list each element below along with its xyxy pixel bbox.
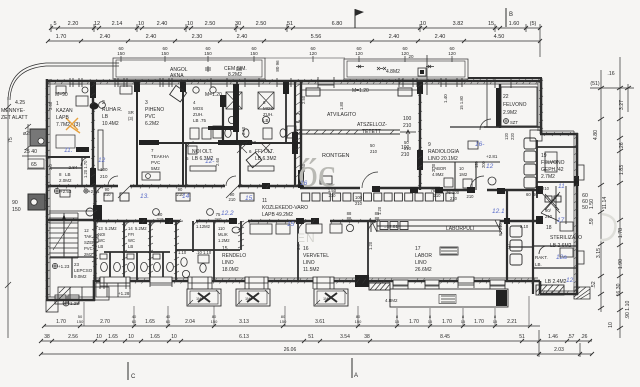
svg-text:30: 30 (235, 21, 241, 27)
left small dim line (27, 124, 29, 160)
svg-text:MLIK: MLIK (218, 232, 228, 237)
dim extension verticals from wall to rowA (84, 296, 529, 326)
svg-text:C: C (131, 374, 136, 380)
dim rowA line (44, 325, 540, 327)
svg-text:4.25: 4.25 (15, 100, 25, 106)
svg-text:10: 10 (128, 334, 134, 340)
svg-text:2.40: 2.40 (146, 34, 157, 40)
svg-text:15: 15 (488, 21, 494, 27)
svg-text:120: 120 (309, 51, 317, 56)
svg-text:14: 14 (128, 226, 133, 231)
4.25 under-ceiling note (1, 100, 37, 213)
svg-text:2.04: 2.04 (185, 319, 195, 325)
svg-text:3.82: 3.82 (453, 21, 464, 27)
svg-text:120: 120 (504, 132, 509, 140)
geph machine (545, 152, 557, 172)
svg-text:1.78: 1.78 (618, 228, 624, 238)
svg-text:2.50: 2.50 (301, 95, 306, 104)
svg-text:210: 210 (434, 193, 442, 198)
svg-text:150: 150 (204, 51, 212, 56)
svg-text:100: 100 (403, 116, 412, 122)
svg-text:15: 15 (287, 221, 295, 228)
svg-text:16: 16 (303, 246, 309, 252)
svg-text:12: 12 (486, 163, 494, 170)
rendelo/verveteli wall (297, 221, 299, 281)
roentgen west wall (300, 82, 302, 188)
svg-text:12: 12 (94, 21, 100, 27)
svg-text:1.10: 1.10 (178, 250, 187, 255)
svg-text:3.15: 3.15 (596, 248, 602, 258)
row1 end tick long (539, 24, 541, 57)
svg-text:16: 16 (300, 180, 308, 187)
svg-text:LB: LB (128, 244, 133, 249)
svg-text:LB .75: LB .75 (193, 118, 207, 123)
svg-text:15.: 15. (245, 195, 254, 202)
svg-text:110: 110 (218, 226, 225, 231)
GROUP: fixtures (56, 82, 579, 295)
svg-text:60: 60 (526, 192, 531, 197)
svg-text:(3): (3) (74, 122, 80, 128)
svg-text:26.6M2: 26.6M2 (415, 267, 432, 273)
svg-text:51: 51 (519, 334, 525, 340)
svg-text:MOS: MOS (263, 106, 273, 111)
svg-text:LB: LB (65, 172, 71, 177)
svg-text:5.2M2: 5.2M2 (135, 226, 147, 231)
svg-text:1M2: 1M2 (196, 297, 203, 301)
svg-text:10: 10 (459, 166, 464, 171)
svg-text:4.50: 4.50 (494, 34, 505, 40)
svg-text:12a: 12a (556, 254, 567, 261)
svg-text:LB 2.6M2: LB 2.6M2 (550, 243, 572, 249)
svg-text:120: 120 (474, 160, 479, 168)
svg-text:15: 15 (428, 319, 433, 324)
svg-text:1.70: 1.70 (474, 319, 484, 325)
GROUP: right dims (582, 57, 634, 338)
dim rowB line (41, 340, 592, 342)
svg-text:2.50: 2.50 (256, 21, 267, 27)
svg-text:.90: .90 (238, 140, 244, 145)
svg-text:90/: 90/ (545, 208, 552, 213)
GROUP: windows and openings (46, 65, 511, 312)
svg-text:AKNA: AKNA (170, 73, 184, 79)
svg-text:-2.84: -2.84 (67, 165, 78, 170)
svg-text:1.20: 1.20 (368, 241, 373, 250)
svg-text:1.70: 1.70 (409, 319, 419, 325)
steril west wall (532, 190, 534, 294)
level cross symbols (52, 188, 88, 268)
svg-text:SZT: SZT (510, 120, 518, 125)
row3 window-size labels 60/150 (117, 46, 456, 72)
svg-text:A: A (354, 373, 358, 379)
svg-text:60: 60 (533, 192, 538, 197)
corridor circles (153, 209, 214, 216)
section marker A (351, 358, 353, 378)
svg-text:1.40: 1.40 (443, 94, 448, 103)
wall room1 east (92, 82, 94, 186)
svg-text:LB 6.3M2: LB 6.3M2 (192, 156, 214, 162)
svg-text:3.61: 3.61 (315, 319, 325, 325)
svg-text:1.20: 1.20 (377, 206, 382, 215)
svg-text:11.14: 11.14 (602, 197, 608, 210)
svg-text:SZER: SZER (84, 240, 95, 245)
svg-text:210: 210 (355, 201, 363, 206)
svg-text:50: 50 (404, 140, 409, 145)
corridor top wall (thick) (47, 186, 540, 190)
svg-text:LINO 20.1M2: LINO 20.1M2 (428, 156, 458, 162)
svg-text:75: 75 (8, 137, 14, 143)
svg-text:15: 15 (222, 246, 228, 252)
kazan room fixtures (56, 86, 88, 106)
svg-text:9.0M2: 9.0M2 (74, 274, 87, 279)
svg-text:LEPCSO: LEPCSO (74, 268, 93, 273)
svg-text:12.1: 12.1 (492, 208, 505, 215)
svg-text:12: 12 (98, 157, 106, 164)
svg-text:25 40: 25 40 (24, 149, 37, 155)
svg-text:10: 10 (96, 334, 102, 340)
svg-text:9: 9 (428, 142, 431, 148)
room2 fixture dot (90, 102, 99, 109)
upper rooms door swings (81, 119, 491, 190)
stairs (49, 211, 95, 258)
svg-text:LINO: LINO (222, 260, 234, 266)
right wing wc column (510, 138, 536, 265)
svg-text:ZUH.: ZUH. (263, 112, 274, 117)
svg-text:3.27: 3.27 (619, 100, 625, 110)
dim rowC line (41, 353, 592, 355)
svg-text:LINO: LINO (303, 260, 315, 266)
entrance double door right (541, 186, 566, 224)
chimney hatched (30, 129, 47, 146)
svg-text:8.45: 8.45 (440, 334, 450, 340)
svg-text:50: 50 (582, 205, 588, 211)
dim row2 line (48, 40, 540, 42)
flue hatched block lower (28, 194, 45, 210)
svg-text:4.80: 4.80 (593, 130, 599, 140)
steril hatch block (536, 285, 564, 295)
svg-text:RUHA R.: RUHA R. (102, 107, 122, 113)
svg-text:51: 51 (287, 21, 293, 27)
light-well band B (bay) outer (344, 59, 468, 79)
felvono south wall (484, 126, 541, 128)
svg-text:11.: 11. (64, 147, 73, 154)
svg-text:PVC: PVC (151, 160, 161, 165)
radiologia sub walls (423, 162, 500, 190)
svg-text:TAK: TAK (84, 234, 92, 239)
dim row1 vertical refs (50, 24, 52, 32)
bay band small box (418, 55, 427, 95)
svg-text:SR: SR (128, 110, 134, 115)
svg-text:KOZLEKEDO-VARO: KOZLEKEDO-VARO (262, 205, 308, 211)
svg-text:+2.81: +2.81 (486, 154, 498, 159)
svg-text:1.12M2: 1.12M2 (196, 224, 211, 229)
svg-text:11: 11 (262, 198, 267, 204)
svg-text:13.: 13. (140, 193, 149, 200)
svg-text:ATVILAGITO: ATVILAGITO (327, 112, 356, 118)
svg-text:.59: .59 (589, 218, 595, 225)
szt box (504, 119, 543, 142)
svg-text:+2.81: +2.81 (88, 189, 100, 194)
vervetel furniture (306, 224, 354, 233)
svg-text:22: 22 (503, 94, 509, 100)
svg-text:1.70: 1.70 (56, 319, 66, 325)
svg-text:200: 200 (481, 160, 486, 168)
lower rooms: west stair wall (94, 186, 97, 281)
svg-text:2.60: 2.60 (241, 126, 246, 135)
GROUP: building outline (8, 58, 590, 301)
svg-text:2.10: 2.10 (520, 224, 529, 229)
svg-text:M=1.20: M=1.20 (205, 92, 222, 98)
right top small line (590, 87, 634, 89)
svg-text:RADIOLOGIA: RADIOLOGIA (428, 149, 460, 155)
svg-text:14.: 14. (182, 193, 191, 200)
svg-text:2.03: 2.03 (554, 347, 564, 353)
svg-text:88: 88 (375, 216, 380, 221)
svg-text:+2.53: +2.53 (60, 189, 72, 194)
svg-text:5: 5 (53, 21, 56, 27)
svg-text:2.70: 2.70 (100, 319, 110, 325)
boiler (56, 135, 75, 148)
svg-text:19: 19 (541, 153, 547, 159)
svg-text:ZUH.: ZUH. (193, 112, 204, 117)
row3 ref ticks (121, 56, 452, 62)
GROUP: bottom dims (39, 296, 594, 380)
dark door block labor right (355, 275, 369, 287)
svg-text:88: 88 (347, 216, 352, 221)
right labels rotated (582, 71, 631, 328)
wc fixtures row (100, 254, 209, 278)
svg-text:MENNYE-: MENNYE- (1, 108, 25, 114)
GROUP: watermark (297, 150, 615, 245)
svg-text:16.30: 16.30 (616, 283, 622, 296)
svg-text:100: 100 (100, 167, 108, 172)
svg-text:EN: EN (297, 231, 316, 245)
svg-text:10.4M2: 10.4M2 (102, 121, 119, 127)
svg-text:WC: WC (128, 238, 135, 243)
svg-text:76-100: 76-100 (446, 190, 460, 195)
svg-text:1.70: 1.70 (56, 34, 67, 40)
atvilagito dividing wall (295, 130, 400, 134)
svg-text:7.7M2: 7.7M2 (56, 122, 70, 128)
radiologia fixtures (444, 141, 496, 188)
svg-text:ATSZELLOZ-: ATSZELLOZ- (357, 122, 387, 128)
right dim vertical inner (600, 70, 602, 312)
svg-text:FELVONO: FELVONO (503, 102, 527, 108)
svg-text:3.54: 3.54 (340, 334, 350, 340)
svg-text:3: 3 (145, 100, 148, 106)
svg-text:11.5M2: 11.5M2 (303, 267, 320, 273)
svg-text:LB.: LB. (535, 262, 542, 267)
svg-text:LB 6.3M2: LB 6.3M2 (255, 156, 277, 162)
svg-text:10: 10 (187, 21, 193, 27)
teakonyha sink (142, 172, 160, 180)
svg-text:LAPB: LAPB (56, 115, 69, 121)
svg-text:LABOR: LABOR (415, 253, 432, 259)
svg-text:2.0M2: 2.0M2 (59, 178, 72, 183)
top-right step wall (468, 77, 542, 79)
top wall main (thick) (46, 80, 540, 83)
svg-text:1.28: 1.28 (70, 301, 79, 306)
svg-text:210: 210 (450, 196, 458, 201)
svg-text:TEAKHA: TEAKHA (151, 154, 169, 159)
svg-text:12: 12 (84, 228, 89, 233)
svg-text:LABOR: LABOR (432, 166, 446, 171)
rowA ticks (42, 324, 532, 328)
svg-text:2.7M2: 2.7M2 (541, 174, 555, 180)
vervetel/labor wall (367, 221, 369, 281)
svg-text:15: 15 (461, 319, 466, 324)
svg-text:210: 210 (401, 152, 410, 158)
svg-text:WC: WC (98, 238, 105, 243)
svg-text:2.40: 2.40 (237, 34, 248, 40)
dark wall accents (90, 82, 579, 224)
svg-text:10: 10 (171, 334, 177, 340)
svg-text:2M2: 2M2 (84, 252, 93, 257)
svg-text:MOS: MOS (193, 106, 203, 111)
svg-text:210: 210 (404, 146, 412, 151)
dim row1 ticks (49, 26, 542, 30)
svg-text:12.2: 12.2 (221, 210, 234, 217)
svg-text:2.40: 2.40 (389, 34, 400, 40)
svg-text:210: 210 (467, 194, 475, 199)
rowA labels (56, 319, 517, 325)
svg-text:2.50: 2.50 (205, 21, 216, 27)
GROUP: interior (47, 78, 577, 294)
svg-text:1.50: 1.50 (589, 199, 595, 209)
svg-text:(5): (5) (530, 21, 537, 27)
svg-text:M=1.20: M=1.20 (352, 88, 369, 94)
entrance extra marks (545, 194, 561, 210)
section marker C (127, 362, 129, 380)
rowC labels (284, 347, 564, 353)
svg-text:150: 150 (280, 319, 287, 324)
steril partitions (509, 246, 577, 268)
svg-text:51: 51 (308, 334, 314, 340)
curved garden wall top-left (8, 63, 119, 100)
basement light well 3 (314, 289, 348, 306)
svg-text:+1.23: +1.23 (58, 264, 70, 269)
svg-text:150: 150 (250, 51, 258, 56)
svg-text:2: 2 (102, 100, 105, 106)
svg-text:15: 15 (493, 319, 498, 324)
svg-text:.26: .26 (619, 142, 625, 149)
svg-text:38: 38 (364, 334, 370, 340)
svg-text:150: 150 (161, 51, 169, 56)
right ticks (598, 86, 631, 330)
svg-text:1.2M2: 1.2M2 (218, 238, 230, 243)
svg-text:3.60: 3.60 (48, 101, 53, 110)
laborpult counter (370, 218, 502, 234)
svg-text:210: 210 (542, 186, 550, 191)
svg-text:220: 220 (510, 132, 515, 140)
wall room2 east (136, 82, 138, 186)
svg-text:210: 210 (157, 217, 165, 222)
svg-text:12.: 12. (566, 277, 575, 284)
svg-text:1M2: 1M2 (245, 297, 252, 301)
svg-text:150: 150 (117, 51, 125, 56)
rowB ticks (39, 339, 592, 343)
radiologia north wall (450, 126, 540, 128)
svg-text:90: 90 (12, 200, 18, 206)
svg-text:M=90: M=90 (55, 92, 68, 98)
svg-text:2.9M2: 2.9M2 (503, 110, 517, 116)
olt benches (188, 146, 274, 171)
svg-text:1.50: 1.50 (248, 140, 257, 145)
svg-text:LB: LB (263, 118, 269, 123)
corridor bottom wall (thick) (47, 220, 540, 221)
svg-text:210: 210 (100, 174, 108, 179)
svg-text:2.30: 2.30 (192, 34, 203, 40)
svg-text:210: 210 (370, 149, 378, 154)
basement light well 1 (dark X) (187, 289, 221, 306)
svg-text:FFI OLT.: FFI OLT. (255, 149, 274, 155)
svg-text:1.70: 1.70 (442, 319, 452, 325)
wall room1 sub (47, 156, 90, 158)
radiator row corridor (302, 193, 454, 201)
rowC ticks (39, 352, 594, 356)
svg-text:.90 1.10: .90 1.10 (625, 301, 631, 320)
svg-text:NOI: NOI (98, 232, 105, 237)
svg-text:18.0M2: 18.0M2 (222, 267, 239, 273)
svg-text:B: B (509, 12, 513, 18)
basement light well 2 (236, 289, 270, 306)
svg-text:15: 15 (395, 319, 400, 324)
svg-text:17: 17 (557, 217, 565, 224)
wall ffi block (294, 82, 296, 186)
north flag marker (355, 9, 364, 28)
bottom wall window openings with sills (100, 277, 505, 289)
svg-text:(3): (3) (128, 116, 134, 121)
dim row2 ticks (46, 39, 542, 43)
svg-text:23: 23 (74, 262, 80, 267)
roentgen equipment (306, 88, 412, 184)
svg-text:GEPH./42: GEPH./42 (541, 167, 564, 173)
dim row1 line (51, 27, 540, 29)
svg-text:210: 210 (215, 217, 223, 222)
svg-text:17: 17 (415, 246, 421, 252)
svg-text:2.20: 2.20 (68, 21, 79, 27)
inner face lines of outer walls (46, 79, 574, 297)
svg-text:10: 10 (608, 322, 614, 328)
svg-text:1M2: 1M2 (323, 297, 330, 301)
svg-text:4.8M2: 4.8M2 (386, 69, 400, 75)
svg-text:LB 2.4M2: LB 2.4M2 (545, 279, 567, 285)
svg-text:6.13: 6.13 (239, 334, 249, 340)
svg-text:120: 120 (355, 51, 363, 56)
svg-text:1.10: 1.10 (203, 250, 212, 255)
svg-text:210: 210 (104, 192, 112, 197)
svg-text:PVC: PVC (145, 114, 156, 120)
svg-text:38: 38 (44, 334, 50, 340)
svg-text:=12.81: =12.81 (384, 224, 398, 229)
svg-text:18: 18 (546, 225, 552, 231)
svg-text:4.8M2: 4.8M2 (385, 298, 398, 303)
svg-text:65: 65 (31, 162, 37, 168)
B marker top right (505, 8, 507, 27)
corridor benches left (86, 193, 254, 216)
felvono cabin (501, 87, 537, 126)
orange pen cross kazan (66, 118, 80, 133)
svg-text:6.2M2: 6.2M2 (145, 121, 159, 127)
GROUP: blue pen annotations (64, 141, 575, 284)
svg-text:8.2M2: 8.2M2 (228, 72, 242, 78)
svg-text:TETETT: TETETT (362, 129, 381, 135)
labor inner cupboard (440, 247, 458, 255)
svg-text:150: 150 (211, 319, 218, 324)
wc block partitions (104, 221, 240, 281)
east wall window sills (577, 165, 584, 264)
canopy window sill symbols (205, 65, 434, 72)
svg-text:120: 120 (448, 51, 456, 56)
